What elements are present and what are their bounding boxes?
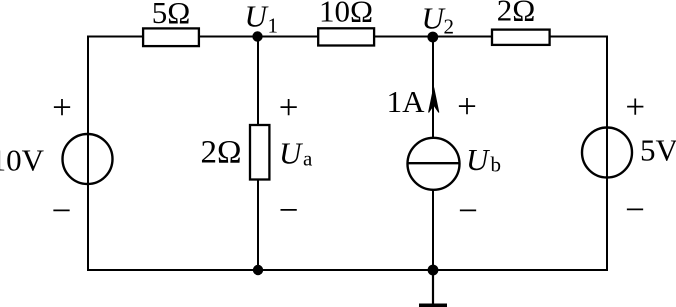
wire middle branch at U1 [257,37,259,271]
svg-text:2Ω: 2Ω [497,0,536,28]
svg-text:5V: 5V [640,133,676,168]
wire right branch [606,36,608,271]
svg-text:U: U [279,136,304,171]
junction dot bottom left (U1 branch) [253,265,263,275]
svg-text:−: − [279,191,299,230]
current arrow 1A [429,88,439,113]
current source bar [408,162,460,164]
svg-text:+: + [457,87,477,126]
wire top (node U1 - node U2 rail) [87,36,608,38]
svg-text:−: − [52,191,72,230]
wire from current source to bottom rail [432,189,434,270]
svg-text:U: U [466,142,491,177]
ground bar [419,304,447,307]
svg-text:5Ω: 5Ω [152,0,191,30]
svg-text:+: + [625,87,645,126]
junction dot bottom right (U2 branch) [428,265,439,276]
svg-text:+: + [52,88,72,127]
resistor R4 (2 ohm vertical) [250,125,269,180]
svg-text:2: 2 [444,15,455,39]
svg-text:10V: 10V [0,143,45,178]
svg-text:10Ω: 10Ω [319,0,373,29]
svg-text:+: + [279,88,299,127]
resistor R2 (10 ohm) [318,28,374,45]
voltage source V1 (10V) circle [63,134,113,184]
voltage source V2 (5V) circle [582,128,632,178]
svg-text:−: − [625,190,645,229]
resistor R1 (5 ohm) [143,28,199,46]
ground stem [432,270,434,304]
node U1 junction dot [252,31,262,41]
current source I1 (1A) circle [408,138,460,190]
svg-text:2Ω: 2Ω [200,135,241,171]
wire from U2 to current source [432,37,434,138]
svg-text:1A: 1A [387,84,426,119]
svg-text:b: b [491,153,502,177]
svg-text:1: 1 [268,14,279,38]
wire left branch [87,36,89,271]
svg-text:U: U [245,0,270,34]
svg-text:a: a [303,147,313,171]
wire bottom rail [87,269,608,271]
resistor R3 (2 ohm top right) [492,30,550,45]
svg-text:−: − [458,191,478,230]
node U2 junction dot [427,32,438,43]
